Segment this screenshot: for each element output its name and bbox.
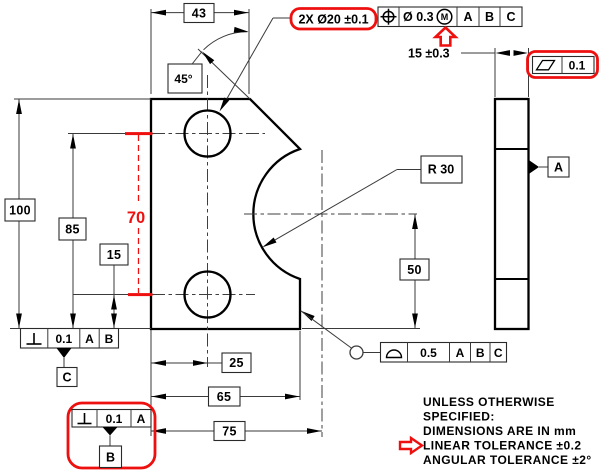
red highlight 2X O20: [291, 9, 376, 30]
red arrow right at linear tolerance: [400, 438, 422, 453]
dimension 75: [151, 422, 322, 441]
centerline horizontal bottom hole: [73, 294, 255, 296]
svg-text:65: 65: [217, 390, 232, 404]
svg-text:43: 43: [192, 6, 207, 20]
svg-text:C: C: [62, 371, 71, 385]
svg-text:C: C: [506, 10, 515, 24]
svg-text:75: 75: [222, 424, 237, 438]
dimension R 30: [261, 156, 462, 250]
svg-text:100: 100: [9, 204, 31, 218]
svg-text:SPECIFIED:: SPECIFIED:: [423, 410, 495, 424]
dimension 15 +-0.3 side view: [408, 47, 529, 98]
svg-text:LINEAR TOLERANCE ±0.2: LINEAR TOLERANCE ±0.2: [423, 439, 582, 453]
hole top: [185, 111, 231, 157]
svg-text:A: A: [463, 10, 472, 24]
svg-text:45°: 45°: [174, 72, 192, 86]
svg-text:B: B: [105, 332, 114, 346]
leader 2X holes: [217, 18, 291, 113]
part main view outline: [151, 99, 300, 329]
svg-text:15: 15: [107, 248, 122, 262]
dimension 43: [151, 4, 249, 95]
notes text block: [423, 395, 592, 467]
centerline vertical through holes: [207, 75, 209, 367]
svg-text:50: 50: [407, 263, 422, 277]
svg-text:B: B: [485, 10, 494, 24]
dimension 65: [151, 331, 300, 406]
svg-text:A: A: [554, 161, 563, 175]
svg-text:Ø 0.3: Ø 0.3: [403, 10, 434, 24]
svg-text:85: 85: [65, 223, 80, 237]
svg-text:B: B: [106, 451, 115, 465]
svg-text:70: 70: [127, 209, 145, 227]
dimension 100: [5, 99, 151, 329]
svg-text:UNLESS OTHERWISE: UNLESS OTHERWISE: [423, 395, 555, 409]
red arrow up at M modifier: [436, 28, 456, 46]
dimension 15 left: [100, 244, 128, 329]
dimension 50: [302, 214, 429, 329]
svg-text:0.1: 0.1: [106, 412, 123, 426]
position tolerance frame: [378, 7, 522, 27]
hole bottom: [185, 272, 231, 318]
svg-text:0.1: 0.1: [55, 332, 72, 346]
dimension 70 red: [125, 132, 153, 296]
svg-text:R 30: R 30: [428, 163, 454, 177]
red highlight perpendicularity B: [68, 403, 155, 468]
svg-text:A: A: [85, 332, 94, 346]
centerline vertical arc center: [321, 150, 323, 437]
perpendicularity frame with datum B: [72, 410, 151, 428]
dimension 45 degrees: [168, 27, 250, 99]
datum A: [530, 157, 570, 177]
svg-text:2X Ø20 ±0.1: 2X Ø20 ±0.1: [298, 12, 368, 26]
side view: [495, 99, 529, 329]
svg-text:ANGULAR TOLERANCE ±2°: ANGULAR TOLERANCE ±2°: [423, 453, 592, 467]
svg-text:C: C: [494, 346, 503, 360]
red highlight parallelism frame: [528, 52, 598, 78]
dimension 25: [151, 330, 251, 436]
svg-text:0.5: 0.5: [420, 346, 437, 360]
svg-text:15 ±0.3: 15 ±0.3: [408, 47, 450, 61]
svg-text:A: A: [456, 346, 465, 360]
profile tolerance frame: [299, 308, 506, 362]
dimension 85: [59, 134, 86, 329]
centerline horizontal top hole: [68, 133, 265, 135]
datum B: [100, 427, 122, 468]
svg-text:A: A: [137, 412, 146, 426]
svg-text:25: 25: [229, 356, 244, 370]
svg-text:B: B: [476, 346, 485, 360]
perpendicularity frame bottom left: [21, 329, 119, 349]
svg-text:M: M: [441, 12, 449, 22]
svg-text:0.1: 0.1: [569, 59, 586, 73]
datum C: [57, 348, 78, 387]
svg-text:DIMENSIONS ARE IN mm: DIMENSIONS ARE IN mm: [423, 424, 576, 438]
centerline horizontal arc center: [244, 213, 417, 215]
